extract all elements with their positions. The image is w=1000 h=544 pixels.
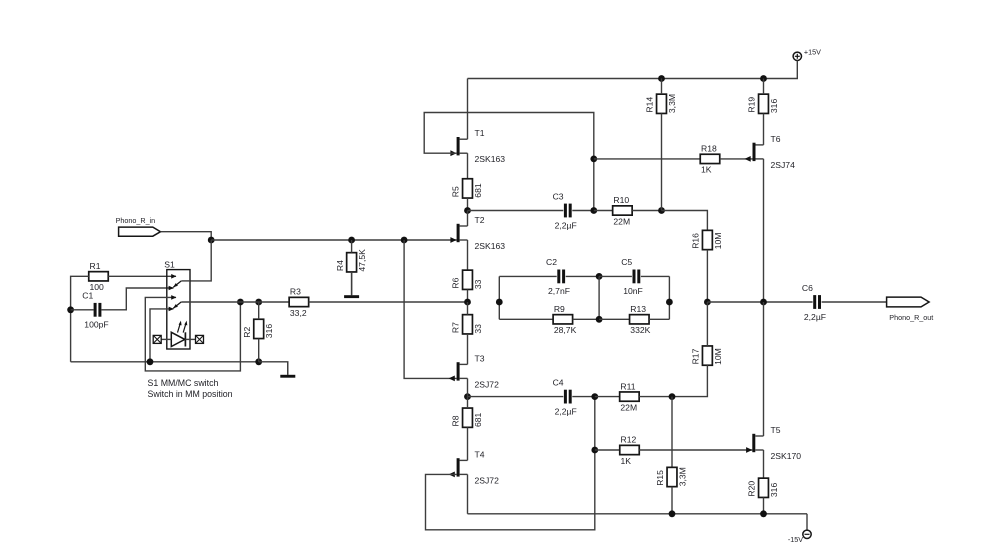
node R19 top junction (760, 75, 767, 82)
node C1 left junction (67, 306, 74, 313)
node R14 top junction (658, 75, 665, 82)
capacitor C6 (802, 283, 826, 322)
pin arrow S1 contact 2a (171, 295, 176, 300)
resistor R9 (553, 304, 576, 335)
wire feedback top mid (599, 275, 632, 277)
wire R10 right (632, 210, 661, 212)
svg-text:R3: R3 (290, 287, 301, 297)
node R15 bottom junction (669, 510, 676, 517)
resistor R15 (655, 467, 687, 486)
svg-text:47,5K: 47,5K (357, 249, 367, 272)
feedback network right link (668, 276, 670, 319)
wire C2 right (566, 275, 599, 277)
pin arrow S1 contact 1a (171, 274, 176, 279)
resistor R16 (691, 230, 723, 249)
node R4 top junction (348, 237, 355, 244)
feedback network mid link (598, 276, 600, 319)
node R16/R17 output junction (704, 299, 711, 306)
wire R8 top (467, 397, 469, 408)
feedback network left link (498, 276, 500, 319)
transistor T4 (449, 449, 499, 485)
wire R3 to center column (309, 301, 468, 303)
svg-text:R9: R9 (554, 304, 565, 314)
svg-text:R13: R13 (630, 304, 646, 314)
svg-text:10M: 10M (713, 348, 723, 365)
wire R12 to T5 gate (639, 449, 752, 451)
node feedback mid bottom junction (596, 316, 603, 323)
wire R10 left (594, 210, 613, 212)
svg-text:T6: T6 (771, 134, 781, 144)
svg-text:R1: R1 (90, 261, 101, 271)
pin arrow S1 contact 1b (169, 286, 174, 291)
wire T2 drain up (467, 211, 469, 227)
svg-text:10M: 10M (713, 233, 723, 250)
resistor R14 (645, 94, 677, 113)
wire T5 source to R20 (763, 450, 765, 478)
svg-text:R5: R5 (451, 186, 461, 197)
svg-text:T5: T5 (771, 425, 781, 435)
node feedback mid top junction (596, 273, 603, 280)
svg-text:T2: T2 (475, 215, 485, 225)
resistor R8 (451, 408, 483, 427)
wire R14 bottom (661, 113, 663, 210)
wire R17 top (706, 302, 708, 346)
wire R9 right (573, 318, 600, 320)
node feedback right junction (666, 299, 673, 306)
node R2 bottom junction (255, 358, 262, 365)
ground below R4 (344, 272, 359, 298)
+15V supply terminal (793, 48, 821, 61)
svg-text:3,3M: 3,3M (677, 467, 687, 486)
wire C5 right (641, 275, 670, 277)
transistor T3 (449, 353, 499, 389)
svg-text:R20: R20 (747, 481, 757, 497)
wire R13 right (649, 318, 669, 320)
svg-text:33: 33 (473, 279, 483, 289)
wire ground bus bottom-left (71, 361, 259, 363)
svg-text:R7: R7 (451, 322, 461, 333)
svg-text:2SK163: 2SK163 (475, 154, 506, 164)
svg-text:1K: 1K (621, 456, 632, 466)
wire T5 drain up to output node (763, 302, 765, 436)
NC terminal left of LED (153, 335, 161, 343)
wire to ground symbol (259, 362, 288, 375)
resistor R19 (747, 94, 779, 113)
capacitor C4 (553, 377, 577, 416)
svg-text:R15: R15 (655, 470, 665, 486)
capacitor C3 (553, 191, 577, 230)
node R20 bottom junction (760, 510, 767, 517)
wire R19 top (763, 79, 765, 95)
svg-text:R19: R19 (747, 97, 757, 113)
resistor R2 (242, 319, 274, 338)
switch S1 box (167, 270, 190, 349)
wire R4 bottom to ground (351, 272, 353, 295)
resistor R20 (747, 478, 779, 497)
wire S1 contact 2a loop (145, 297, 240, 371)
wire R13 left (599, 318, 629, 320)
resistor R6 (451, 270, 483, 289)
svg-text:2,2µF: 2,2µF (555, 406, 577, 416)
svg-text:Switch in MM position: Switch in MM position (148, 389, 233, 399)
svg-text:33,2: 33,2 (290, 308, 307, 318)
-15V supply terminal (788, 514, 811, 544)
capacitor C2 (546, 257, 570, 296)
wire R5 bottom (467, 198, 469, 210)
net connector Phono_R_in (116, 216, 161, 236)
svg-text:C4: C4 (553, 377, 564, 387)
wire R17 bottom to R11 node (672, 365, 707, 396)
svg-text:S1: S1 (164, 259, 175, 269)
wire T4 gate loop (426, 397, 595, 530)
resistor R5 (451, 179, 483, 198)
wire R8 bottom to T4 drain (467, 427, 469, 460)
svg-text:2,7nF: 2,7nF (548, 286, 570, 296)
ground near R2 (280, 362, 295, 378)
svg-text:Phono_R_in: Phono_R_in (116, 216, 156, 225)
wire R14 top (661, 79, 663, 95)
wire C4 node wire (468, 396, 564, 398)
svg-text:2,2µF: 2,2µF (555, 220, 577, 230)
resistor R12 (620, 435, 640, 466)
capacitor C5 (621, 257, 643, 296)
node T3 source junction (464, 393, 471, 400)
wire C6 to Phono_R_out (822, 301, 887, 303)
node S1 2b junction (147, 358, 154, 365)
switch S1 pole 1 blade (173, 281, 181, 287)
node R11/R15 junction (669, 393, 676, 400)
svg-text:22M: 22M (620, 402, 637, 412)
wire T3 gate branch vertical (404, 240, 457, 378)
svg-text:2SK170: 2SK170 (771, 451, 802, 461)
node R2 top junction (255, 299, 262, 306)
wire feedback top left (499, 275, 556, 277)
svg-text:22M: 22M (613, 216, 630, 226)
node T5/T6 drain output junction (760, 299, 767, 306)
wire S1 switch 1 output (181, 280, 190, 282)
svg-text:+15V: +15V (804, 48, 821, 57)
wire R12 left (595, 449, 620, 451)
svg-text:332K: 332K (630, 325, 650, 335)
wire T6 drain down to output node (763, 159, 765, 302)
wire R18 to T6 gate (720, 158, 753, 160)
svg-text:R12: R12 (621, 435, 637, 445)
svg-text:316: 316 (769, 99, 779, 114)
svg-text:681: 681 (473, 412, 483, 427)
svg-text:R10: R10 (613, 195, 629, 205)
wire C1 left (71, 309, 94, 311)
wire R4 top (351, 240, 353, 253)
switch S1 pole 2 blade (173, 302, 181, 308)
wire R14 node to R16 (662, 211, 708, 231)
node R18 branch junction (590, 156, 597, 163)
svg-text:3,3M: 3,3M (667, 94, 677, 113)
svg-text:R6: R6 (451, 277, 461, 288)
NC terminal right of LED (196, 335, 204, 343)
wire R2 bottom (258, 339, 260, 362)
capacitor C1 (82, 291, 108, 330)
svg-text:R16: R16 (691, 233, 701, 249)
wire +15V to rail (468, 61, 798, 79)
svg-text:C3: C3 (553, 191, 564, 201)
wire S1 out to R3 (181, 301, 289, 303)
wire T3 source down (467, 378, 469, 396)
svg-text:2,2µF: 2,2µF (804, 312, 826, 322)
resistor R3 (289, 287, 309, 318)
svg-text:R14: R14 (645, 97, 655, 113)
wire R2 top (258, 302, 260, 319)
node C4/R11 junction (591, 393, 598, 400)
node input junction (208, 237, 215, 244)
wire C3 right (572, 210, 594, 212)
wire R1 right to S1 pin (108, 275, 176, 277)
svg-text:2SJ72: 2SJ72 (475, 475, 500, 485)
wire C1 right to S1 pin (101, 288, 173, 310)
svg-text:1K: 1K (701, 165, 712, 175)
svg-text:2SJ72: 2SJ72 (475, 379, 500, 389)
svg-text:-15V: -15V (788, 535, 803, 544)
wire feedback bottom left (499, 318, 553, 320)
wire R16 bottom (706, 250, 708, 302)
resistor R1 (89, 261, 109, 292)
wire R18 branch (594, 158, 700, 160)
node T2 drain junction (464, 207, 471, 214)
node center column output junction (464, 299, 471, 306)
resistor R17 (691, 346, 723, 365)
wire T1 gate loop (424, 113, 594, 211)
svg-text:T4: T4 (475, 449, 485, 459)
wire C3 node wire (468, 210, 564, 212)
svg-text:316: 316 (264, 324, 274, 339)
wire R7 bottom to T3 drain (467, 334, 469, 364)
node R12 branch junction (591, 447, 598, 454)
wire R6 bottom (467, 289, 469, 302)
wire negative rail (468, 513, 808, 515)
wire R15 bottom (671, 487, 673, 514)
resistor R10 (613, 195, 633, 226)
svg-text:33: 33 (473, 324, 483, 334)
svg-text:R8: R8 (451, 415, 461, 426)
svg-text:C1: C1 (82, 291, 93, 301)
wire R20 bottom (763, 497, 765, 513)
svg-text:10nF: 10nF (623, 286, 643, 296)
wire T2 source to R6 (467, 240, 469, 270)
wire input node down to S1 switch a output (190, 240, 211, 281)
wire input node to T2 gate (211, 239, 456, 241)
wire Phono_R_in to input node (161, 232, 212, 240)
pin arrow S1 contact 2b (169, 307, 174, 312)
node loop junction on output wire (237, 299, 244, 306)
svg-text:Phono_R_out: Phono_R_out (889, 313, 933, 322)
wire R19 bottom to T6 source (763, 113, 765, 144)
node C3/R10 junction (590, 207, 597, 214)
wire R11 right (639, 396, 672, 398)
svg-text:R4: R4 (335, 260, 345, 271)
svg-text:100pF: 100pF (84, 320, 108, 330)
wire output node to C6 (707, 301, 812, 303)
svg-text:2SJ74: 2SJ74 (771, 160, 796, 170)
wire R15 top (671, 397, 673, 468)
transistor T6 (745, 134, 796, 170)
wire S1 contact 2b down (150, 309, 173, 362)
svg-text:R17: R17 (691, 348, 701, 364)
node R10/R14 junction (658, 207, 665, 214)
LED in S1 (161, 321, 195, 347)
resistor R7 (451, 315, 483, 334)
svg-text:T1: T1 (475, 128, 485, 138)
wire R7 top (467, 302, 469, 315)
wire T1 drain to +15V rail (467, 79, 469, 140)
svg-text:C6: C6 (802, 283, 813, 293)
transistor T2 (450, 215, 505, 251)
svg-text:28,7K: 28,7K (554, 325, 577, 335)
node feedback left junction (496, 299, 503, 306)
svg-text:2SK163: 2SK163 (475, 241, 506, 251)
svg-text:C5: C5 (621, 257, 632, 267)
transistor T1 (450, 128, 505, 164)
svg-text:R2: R2 (242, 326, 252, 337)
svg-text:S1 MM/MC switch: S1 MM/MC switch (148, 378, 219, 388)
resistor R18 (700, 144, 720, 175)
svg-text:R18: R18 (701, 144, 717, 154)
svg-text:R11: R11 (620, 381, 635, 391)
wire R1 left to left rail (71, 276, 89, 362)
svg-text:T3: T3 (475, 353, 485, 363)
net connector Phono_R_out (887, 297, 934, 322)
svg-text:316: 316 (769, 483, 779, 498)
resistor R4 (335, 249, 367, 272)
resistor R11 (620, 381, 640, 412)
svg-text:681: 681 (473, 183, 483, 198)
transistor T5 (746, 425, 801, 461)
node T3 gate branch junction (401, 237, 408, 244)
svg-text:C2: C2 (546, 257, 557, 267)
wire T4 source to negative rail (467, 474, 469, 513)
resistor R13 (630, 304, 651, 335)
wire R11 left (595, 396, 620, 398)
wire T1 source to R5 (467, 153, 469, 179)
wire C4 right (572, 396, 595, 398)
